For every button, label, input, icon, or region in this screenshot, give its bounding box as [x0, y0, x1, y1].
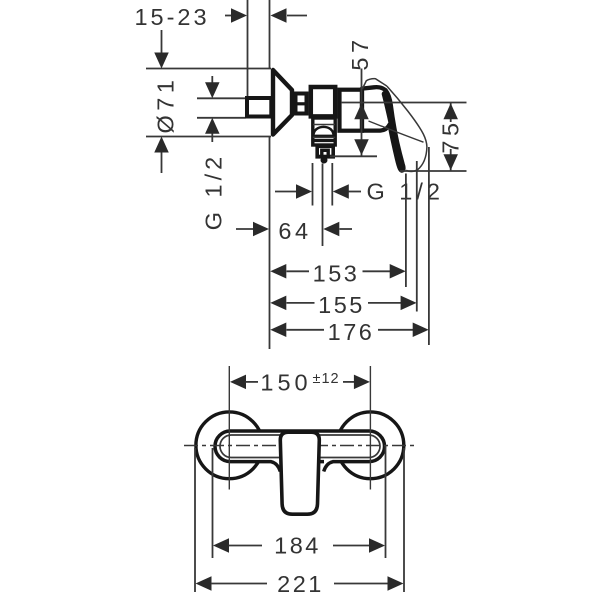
cartridge hub [340, 90, 363, 131]
dimension 150 tolerance label [313, 371, 340, 387]
extension line handle max [428, 147, 430, 345]
svg-text:155: 155 [318, 292, 365, 318]
dimension 176 right arrow [378, 323, 429, 338]
dimension G12-wall top arrow [205, 82, 220, 98]
dimension 57 bottom arrow [354, 139, 369, 155]
dimension 15-23 label [134, 4, 209, 30]
outlet housing [313, 118, 335, 145]
dimension 75 line [450, 103, 452, 172]
svg-text:G 1/2: G 1/2 [201, 153, 227, 230]
dimension 176 left arrow [270, 323, 324, 338]
wire wall-front line upper [269, 0, 271, 69]
dimension 57 top arrow [354, 103, 369, 119]
extension line handle tip [405, 174, 407, 288]
dimension 15-23 left arrow [225, 8, 247, 23]
handle base right joint [324, 459, 333, 465]
dimension G12-outlet line left [275, 191, 296, 193]
dimension G12-outlet left arrow [296, 184, 312, 199]
wire wall-back line [247, 0, 249, 97]
reference line upper [341, 102, 467, 104]
dimension 150 left arrow [230, 375, 258, 390]
dimension 64 label [278, 218, 311, 244]
svg-text:150: 150 [260, 369, 311, 395]
dimension O71 label [153, 76, 179, 134]
dimension 150 label [260, 369, 311, 395]
dimension O71 top arrow [154, 53, 169, 69]
extension line escutcheon right [403, 448, 405, 592]
dimension 153 label [313, 260, 360, 286]
extension line flange bottom [146, 136, 271, 138]
reference line outlet bottom [330, 155, 377, 157]
dimension 155 left arrow [270, 296, 314, 311]
handle top facet [362, 79, 387, 89]
dimension 75 top arrow [443, 103, 458, 119]
dimension G12-outlet right arrow [333, 184, 361, 199]
left escutcheon circle [196, 412, 263, 479]
center line horizontal [184, 445, 417, 447]
center line right vertical [369, 366, 371, 490]
hose nipple cap [317, 155, 335, 158]
dimension G12-wall line [211, 76, 213, 142]
dimension 184 label [274, 533, 321, 559]
pipe fitting [247, 98, 271, 117]
handle facet line [369, 121, 424, 142]
handle outer edge [387, 86, 427, 171]
dimension 75 label [438, 118, 464, 153]
dimension 57 label [347, 35, 373, 70]
dimension G12-wall bottom arrow [205, 118, 220, 134]
svg-text:Ø71: Ø71 [153, 76, 179, 134]
dimension 221 right arrow [334, 576, 404, 591]
connection ports [294, 94, 309, 114]
dimension 221 left arrow [196, 576, 268, 591]
dimension 57 line [361, 69, 363, 157]
extension line outlet right [331, 163, 333, 206]
dimension 64 right arrow [323, 222, 352, 237]
handle base fillet right [324, 462, 333, 472]
svg-text:176: 176 [328, 319, 375, 345]
dimension 64 left arrow [236, 222, 269, 237]
svg-text:75: 75 [438, 118, 464, 153]
outlet dome [313, 127, 333, 136]
hose nut [317, 146, 333, 157]
dimension G12-outlet label [367, 179, 444, 205]
dimension 153 right arrow [363, 264, 406, 279]
hose nipple dot [321, 157, 328, 164]
reference line handle bottom [400, 170, 467, 172]
dimension 221 label [277, 571, 324, 597]
hose nut inner [322, 150, 328, 157]
svg-text:221: 221 [277, 571, 324, 597]
wire wall-front line lower [269, 137, 271, 350]
mixer body [215, 431, 385, 462]
dimension 150 right arrow [343, 375, 370, 390]
center line left vertical [228, 366, 230, 490]
dimension 15-23 right arrow [271, 8, 308, 23]
handle base left joint [272, 459, 281, 465]
dimension 75 bottom arrow [443, 154, 458, 170]
extension line body left [212, 448, 214, 558]
extension line outlet axis [322, 164, 324, 247]
svg-text:64: 64 [278, 218, 311, 244]
valve body [311, 87, 335, 116]
extension line pipe bottom [197, 117, 246, 119]
handle grip filler [385, 94, 401, 165]
dimension 184 right arrow [333, 538, 385, 553]
svg-text:±12: ±12 [313, 371, 340, 387]
extension line pipe top [197, 97, 246, 99]
escutcheon flange [273, 70, 292, 135]
extension line handle outer [416, 161, 418, 312]
handle front [280, 432, 319, 514]
extension line outlet left [312, 163, 314, 206]
mixer body inner contour [220, 435, 380, 458]
dimension 155 right arrow [368, 296, 417, 311]
dimension 153 left arrow [270, 264, 309, 279]
outlet thin band [313, 136, 335, 138]
svg-text:184: 184 [274, 533, 321, 559]
outlet thick band [313, 139, 335, 142]
dimension O71 line [161, 30, 163, 173]
extension line flange top [146, 68, 271, 70]
handle base fillet left [271, 462, 280, 472]
right escutcheon circle [337, 412, 404, 479]
svg-text:15-23: 15-23 [134, 4, 209, 30]
dimension 176 label [328, 319, 375, 345]
dimension 155 label [318, 292, 365, 318]
extension line escutcheon left [194, 448, 196, 592]
svg-text:153: 153 [313, 260, 360, 286]
extension line body right [385, 446, 387, 558]
dimension G12-wall label [201, 153, 227, 230]
outlet ledge line [313, 124, 335, 126]
dimension 184 left arrow [213, 538, 262, 553]
handle lever [362, 87, 404, 171]
svg-text:57: 57 [347, 35, 373, 70]
dimension O71 bottom arrow [154, 137, 169, 153]
